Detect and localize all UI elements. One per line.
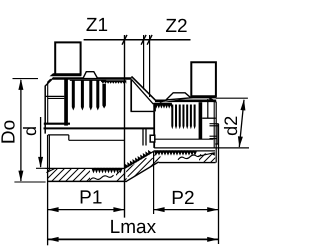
left fusion indicator boss bbox=[83, 72, 98, 79]
left socket chamfer inner edge bbox=[48, 79, 51, 82]
right pipe break line (wavy) bbox=[178, 154, 201, 160]
left end thick horizontal bbox=[44, 123, 70, 125]
right mouth wall bbox=[153, 111, 155, 147]
Do dimension line bbox=[20, 80, 22, 181]
right coil termination box bbox=[150, 135, 155, 142]
right socket top outer surface bbox=[155, 100, 216, 103]
left socket outer wall bbox=[44, 86, 46, 134]
right pipe wall strip top edge bbox=[154, 150, 216, 152]
right end box line upper b bbox=[210, 125, 219, 127]
extension line Z2 left bbox=[143, 35, 145, 90]
svg-text:Z2: Z2 bbox=[165, 16, 187, 37]
right end box bottom cap bbox=[215, 143, 219, 145]
svg-text:Do: Do bbox=[0, 120, 20, 144]
P1 arrow left bbox=[48, 207, 59, 212]
right end box line lower b bbox=[210, 138, 218, 140]
svg-text:P1: P1 bbox=[79, 187, 102, 208]
left coil sawtooth strip bbox=[101, 80, 126, 84]
svg-text:d2: d2 bbox=[221, 116, 241, 136]
d2 top extension bbox=[216, 97, 248, 99]
d2 dimension line bbox=[239, 100, 244, 147]
bore line clips bbox=[142, 129, 144, 146]
left end face divider upper bbox=[45, 95, 64, 97]
left mouth step line bbox=[48, 134, 69, 136]
cone stop face vertical bbox=[130, 80, 132, 112]
extension line Z2 right bbox=[149, 35, 151, 97]
P1 arrow right bbox=[113, 207, 124, 212]
left strip fusion serration bbox=[92, 169, 122, 173]
right end face divider bbox=[202, 117, 215, 119]
svg-text:d: d bbox=[20, 126, 40, 136]
right coil sawtooth strip bbox=[153, 103, 172, 109]
right bore line bbox=[154, 147, 249, 149]
left mouth wall outer / P1 Lmax extension bbox=[47, 135, 49, 245]
left bore line (long) bbox=[44, 127, 156, 129]
right socket wall inner line bbox=[213, 101, 215, 148]
right mouth entry chamfer bbox=[198, 153, 215, 157]
right end chamfer inner bbox=[209, 99, 216, 102]
left pipe wall strip top edge bbox=[45, 167, 124, 169]
Do arrow down bbox=[18, 171, 23, 182]
right end chamfer bbox=[208, 97, 215, 101]
right strip fusion serration bbox=[155, 151, 197, 154]
cone interior line bbox=[131, 110, 154, 112]
Lmax arrow left bbox=[48, 237, 59, 242]
left coil windings bbox=[72, 81, 75, 111]
Lmax arrow right bbox=[207, 237, 218, 242]
left end face divider lower bbox=[48, 97, 65, 99]
right coil zone dark bar bbox=[199, 102, 203, 139]
cone top outer surface bbox=[132, 76, 156, 100]
Lmax dimension line bbox=[48, 238, 219, 240]
left mouth lower line bbox=[69, 139, 125, 141]
cone band serration bbox=[125, 151, 151, 168]
left socket top-left chamfer bbox=[45, 78, 53, 86]
cone band lower diagonal bbox=[127, 162, 159, 181]
right under-coil line bbox=[154, 138, 213, 140]
right pipe wall strip bottom edge bbox=[159, 162, 216, 164]
P1 dimension line bbox=[48, 209, 125, 211]
d extension bbox=[36, 167, 46, 169]
left pin base pad bbox=[50, 73, 82, 76]
P2 arrow left bbox=[154, 207, 165, 212]
left coil zone right edge bar bbox=[102, 84, 106, 109]
P2 arrow right bbox=[207, 207, 218, 212]
svg-text:P2: P2 bbox=[171, 188, 194, 209]
Z dimension tick middle bbox=[141, 35, 146, 45]
left terminal pin bbox=[55, 42, 80, 74]
d2 arrow up bbox=[240, 99, 245, 110]
left socket top outer surface bbox=[53, 77, 132, 79]
P2 dimension line bbox=[154, 209, 219, 211]
right fusion indicator boss bbox=[166, 93, 191, 100]
left mouth step vertical bbox=[68, 135, 70, 140]
right pin base pad bbox=[191, 96, 217, 99]
extension line Z1 / left socket end face / P1 right extension bbox=[124, 35, 126, 218]
left socket end face inner line bbox=[47, 82, 49, 124]
right end face inner vertical bbox=[207, 99, 209, 118]
right end box line upper a bbox=[210, 123, 219, 125]
Do arrow up bbox=[18, 79, 23, 90]
Z dimension line bbox=[84, 39, 191, 41]
right socket outer wall bbox=[215, 102, 217, 163]
Do bottom extension bbox=[14, 181, 45, 183]
left pipe wall strip bottom edge bbox=[47, 180, 127, 182]
svg-text:Lmax: Lmax bbox=[110, 217, 157, 238]
right mouth chamfer dark corner bbox=[211, 153, 215, 156]
left mouth entry chamfer bbox=[46, 168, 55, 172]
right terminal pin bbox=[191, 62, 216, 96]
cone interior bar bbox=[153, 105, 156, 111]
extension line bottom right bbox=[218, 124, 220, 244]
d arrow down bbox=[38, 157, 43, 168]
Do top extension bbox=[13, 78, 39, 80]
left mouth wall inner bbox=[48, 135, 50, 168]
right socket inner top line bbox=[153, 103, 172, 105]
cone band upper diagonal bbox=[125, 151, 154, 168]
right coil windings bbox=[171, 105, 173, 130]
left pipe break line (wavy) bbox=[90, 175, 114, 181]
Z dimension tick left bbox=[122, 35, 127, 45]
left coil zone dark bar bbox=[64, 78, 68, 126]
left coil zone top line bbox=[70, 79, 106, 81]
d2 arrow down bbox=[238, 136, 243, 147]
cone top inner surface bbox=[132, 79, 154, 104]
svg-text:Z1: Z1 bbox=[86, 15, 108, 36]
Z dimension tick right bbox=[147, 35, 152, 45]
d dimension line bbox=[40, 117, 42, 167]
extension line P2 left bbox=[153, 152, 155, 215]
right fusion indicator boss base arc bbox=[160, 98, 191, 103]
right end box line lower a bbox=[210, 135, 218, 137]
right end outer box edge bbox=[217, 124, 219, 144]
